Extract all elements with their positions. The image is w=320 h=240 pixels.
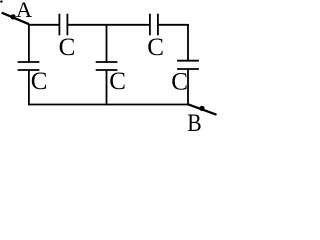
terminal B lead bbox=[188, 104, 217, 114]
node on B lead bbox=[199, 106, 204, 111]
wire: left branch lower segment bbox=[28, 70, 30, 105]
node on A lead bbox=[11, 14, 16, 19]
svg-text:A: A bbox=[16, 0, 33, 22]
wire: left branch upper segment bbox=[28, 24, 30, 62]
terminal A lead bbox=[2, 13, 29, 25]
capacitor C3 (left shunt) bbox=[18, 62, 40, 70]
svg-text:C: C bbox=[31, 68, 48, 95]
stray mark (top-left corner dot) bbox=[0, 0, 2, 2]
capacitor C2 (top-right, series) bbox=[150, 14, 158, 36]
wire: bottom rail bbox=[28, 104, 189, 106]
svg-text:C: C bbox=[59, 34, 76, 61]
svg-text:C: C bbox=[171, 68, 188, 95]
wire: top rail, segment between C1 and C2 bbox=[68, 24, 149, 26]
wire: middle branch upper segment bbox=[106, 24, 108, 62]
svg-text:B: B bbox=[187, 109, 201, 131]
capacitor C4 (middle shunt) bbox=[96, 62, 118, 70]
capacitor C1 (top-left, series) bbox=[59, 14, 67, 36]
wire: middle branch lower segment bbox=[106, 70, 108, 105]
capacitor C5 (right shunt) bbox=[177, 61, 199, 69]
wire: top rail, segment from A corner to C1 bbox=[28, 24, 58, 26]
svg-text:C: C bbox=[109, 68, 126, 95]
svg-text:C: C bbox=[147, 34, 164, 61]
wire: top rail, segment from C2 to right corner bbox=[159, 24, 189, 26]
wire: right branch lower segment bbox=[187, 69, 189, 105]
wire: right branch upper segment bbox=[187, 24, 189, 61]
